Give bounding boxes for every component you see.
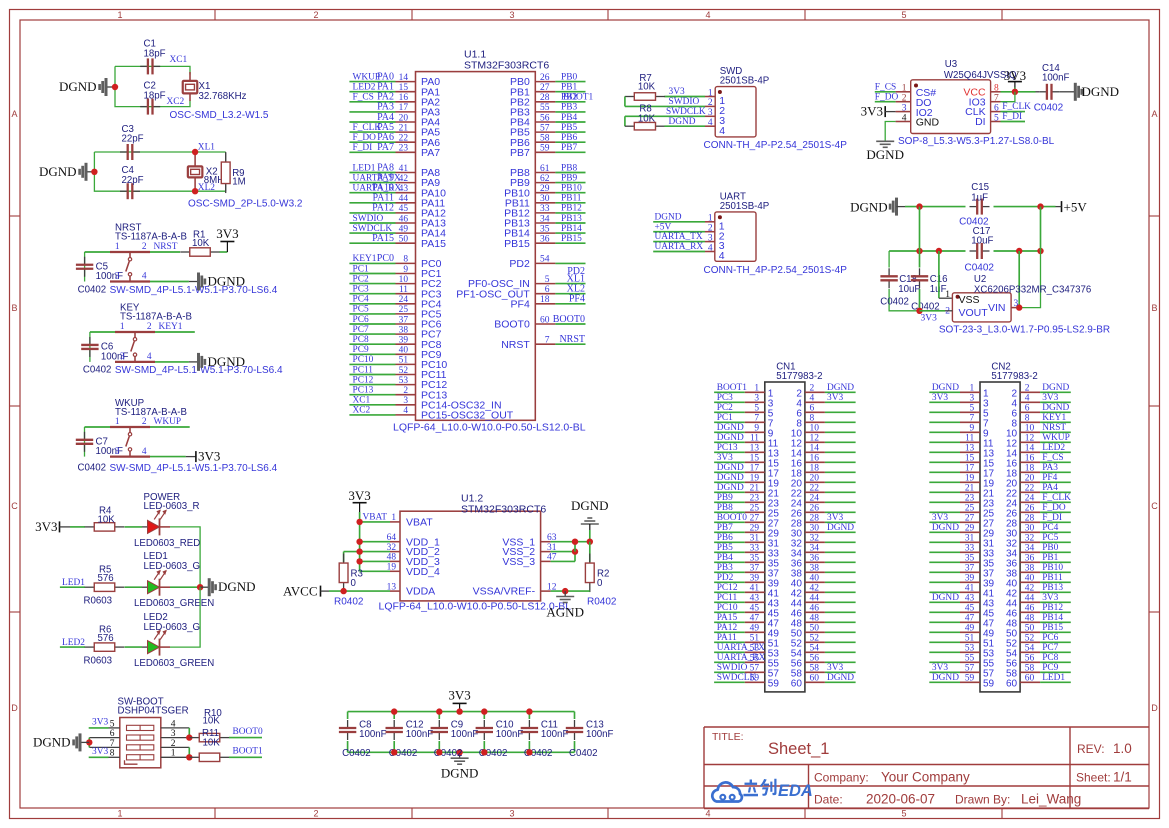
svg-text:28: 28 xyxy=(540,93,550,103)
svg-text:C0402: C0402 xyxy=(78,285,107,296)
junction 3V3 VOUT node xyxy=(916,308,922,314)
capacitor C6 xyxy=(89,337,91,345)
svg-text:57: 57 xyxy=(540,123,550,133)
wire CN2 pin 40 xyxy=(1020,581,1040,583)
svg-text:49: 49 xyxy=(399,224,409,234)
junction XL1 xyxy=(192,149,198,155)
svg-text:7: 7 xyxy=(754,414,759,424)
svg-text:VIN: VIN xyxy=(988,302,1006,314)
svg-text:SOT-23-3_L3.0-W1.7-P0.95-LS2.9: SOT-23-3_L3.0-W1.7-P0.95-LS2.9-BR xyxy=(939,324,1110,335)
svg-text:3: 3 xyxy=(115,272,120,282)
wire CN2 pin 35 xyxy=(929,561,960,563)
svg-text:XC6206P332MR_C347376: XC6206P332MR_C347376 xyxy=(974,284,1091,295)
wire DGND decoupling bottom rail xyxy=(348,751,575,753)
svg-text:1/1: 1/1 xyxy=(1113,770,1132,785)
svg-text:PC1: PC1 xyxy=(353,264,369,274)
logo LCEDA cloud xyxy=(712,782,742,801)
svg-text:17: 17 xyxy=(965,464,975,474)
svg-text:24: 24 xyxy=(399,295,409,305)
svg-text:14: 14 xyxy=(1025,444,1035,454)
svg-text:SWDCLK: SWDCLK xyxy=(717,673,757,683)
svg-text:F_CLK: F_CLK xyxy=(1042,493,1071,503)
svg-text:20: 20 xyxy=(810,474,820,484)
wire CN1 pin 31 xyxy=(714,541,745,543)
svg-text:58: 58 xyxy=(810,664,820,674)
svg-text:34: 34 xyxy=(1025,544,1035,554)
wire U1.1 pin 36 (PB15) xyxy=(535,242,555,244)
wire U1.1 pin 49 (PA14) xyxy=(349,232,395,234)
svg-text:57: 57 xyxy=(965,664,975,674)
capacitor C3 xyxy=(120,151,128,153)
svg-text:39: 39 xyxy=(399,336,409,346)
wire CN2 pin 38 xyxy=(1020,571,1040,573)
svg-text:C0402: C0402 xyxy=(965,263,995,274)
junction bottom rail C11 xyxy=(526,749,532,755)
wire 3V3 vertical rail U1.2 xyxy=(359,512,361,571)
svg-text:+5V: +5V xyxy=(655,222,672,232)
wire CN2 pin 32 xyxy=(1020,541,1040,543)
svg-text:F_DO: F_DO xyxy=(1042,503,1066,513)
svg-text:PB5: PB5 xyxy=(561,123,577,133)
svg-text:Your Company: Your Company xyxy=(881,770,970,785)
svg-text:3V3: 3V3 xyxy=(1042,593,1058,603)
svg-text:60: 60 xyxy=(540,315,550,325)
wire U1.1 pin 38 (PC7) xyxy=(349,333,395,335)
capacitor C7 xyxy=(84,432,86,440)
junction 3V3 rail xyxy=(456,708,462,714)
svg-text:WKUP: WKUP xyxy=(154,417,182,427)
svg-text:44: 44 xyxy=(1025,594,1035,604)
svg-text:56: 56 xyxy=(540,113,550,123)
wire UART pin 4 UARTA_RX xyxy=(705,251,715,253)
svg-text:35: 35 xyxy=(965,554,975,564)
svg-text:DGND: DGND xyxy=(655,212,682,222)
wire R11 to BOOT1 xyxy=(229,756,262,758)
wire CN1 pin 52 xyxy=(805,641,825,643)
wire U3 pin3 xyxy=(896,111,911,113)
svg-text:BOOT1: BOOT1 xyxy=(233,746,264,756)
svg-text:1uF: 1uF xyxy=(971,192,988,203)
svg-text:VDD_4: VDD_4 xyxy=(406,566,440,578)
svg-text:16: 16 xyxy=(1025,454,1035,464)
wire U3 pin2 F_DO xyxy=(896,101,911,103)
svg-text:10K: 10K xyxy=(638,114,656,125)
svg-text:2: 2 xyxy=(147,322,152,332)
svg-text:23: 23 xyxy=(750,494,760,504)
wire CN1 pin 9 xyxy=(714,431,745,433)
svg-text:KEY1: KEY1 xyxy=(353,254,377,264)
svg-text:41: 41 xyxy=(399,164,409,174)
svg-text:46: 46 xyxy=(399,214,409,224)
wire KEY bottom to ground xyxy=(155,361,189,363)
svg-text:38: 38 xyxy=(399,325,409,335)
svg-text:46: 46 xyxy=(810,604,820,614)
svg-text:PB15: PB15 xyxy=(504,238,530,250)
svg-text:50: 50 xyxy=(810,624,820,634)
svg-text:3V3: 3V3 xyxy=(92,747,108,757)
wire CN1 pin 17 xyxy=(714,471,745,473)
svg-text:D: D xyxy=(1151,703,1158,713)
svg-text:DGND: DGND xyxy=(717,483,744,493)
ground DGND flag NRST xyxy=(189,281,198,283)
svg-text:29: 29 xyxy=(750,524,760,534)
svg-text:60: 60 xyxy=(810,674,820,684)
wire U1.1 pin 7 (NRST) xyxy=(535,343,555,345)
svg-text:52: 52 xyxy=(399,366,409,376)
svg-text:4: 4 xyxy=(719,125,725,137)
svg-text:100nF: 100nF xyxy=(451,729,479,740)
svg-text:2: 2 xyxy=(708,98,713,108)
transistor U2 XC6206P332MR body xyxy=(952,293,1011,322)
svg-text:PC11: PC11 xyxy=(717,593,738,603)
svg-text:5: 5 xyxy=(545,275,550,285)
svg-text:3V3: 3V3 xyxy=(198,449,220,464)
svg-text:PD2: PD2 xyxy=(567,266,585,277)
wire XL1 net top xyxy=(94,151,225,153)
switch NRST TS-1187A-B-A-B xyxy=(110,251,150,253)
wire CN2 pin 2 xyxy=(1020,391,1040,393)
svg-text:PA15: PA15 xyxy=(421,238,446,250)
svg-text:1M: 1M xyxy=(232,176,245,187)
svg-text:PC7: PC7 xyxy=(353,325,369,335)
wire CN2 pin 53 xyxy=(929,651,960,653)
svg-text:41: 41 xyxy=(750,584,760,594)
svg-text:3V3: 3V3 xyxy=(92,718,108,728)
svg-text:PC4: PC4 xyxy=(353,295,369,305)
svg-text:15: 15 xyxy=(965,454,975,464)
svg-text:U3: U3 xyxy=(945,59,957,70)
wire CN1 pin 10 xyxy=(805,431,825,433)
wire SWD pin 4 xyxy=(705,125,715,127)
wire 1019 down to VIN xyxy=(1018,251,1020,308)
wire U1.1 pin 55 (PB3) xyxy=(535,111,555,113)
svg-text:PA3: PA3 xyxy=(1042,463,1058,473)
svg-text:SWDIO: SWDIO xyxy=(353,214,384,224)
svg-text:3V3: 3V3 xyxy=(35,519,57,534)
svg-text:F_DI: F_DI xyxy=(353,143,373,153)
wire U1.1 pin 5 (PF0-OSC_IN) xyxy=(535,283,555,285)
capacitor C9 xyxy=(438,712,440,719)
wire CN1 pin 60 xyxy=(805,681,825,683)
svg-text:OSC-SMD_2P-L5.0-W3.2: OSC-SMD_2P-L5.0-W3.2 xyxy=(188,199,303,210)
svg-text:R0402: R0402 xyxy=(334,596,364,607)
svg-text:4: 4 xyxy=(705,809,710,819)
svg-text:PB11: PB11 xyxy=(561,194,582,204)
svg-text:2: 2 xyxy=(313,10,318,20)
svg-text:PB12: PB12 xyxy=(1042,603,1063,613)
svg-text:4: 4 xyxy=(708,118,713,128)
wire CN2 pin 7 xyxy=(929,421,960,423)
junction second rail C16 xyxy=(916,248,922,254)
wire CN1 pin 39 xyxy=(714,581,745,583)
svg-text:14: 14 xyxy=(399,73,409,83)
svg-text:100nF: 100nF xyxy=(496,729,524,740)
svg-text:DGND: DGND xyxy=(932,593,959,603)
wire reg top rail right xyxy=(994,206,1056,208)
svg-text:1: 1 xyxy=(120,322,125,332)
wire DGND to VSS_1 xyxy=(589,530,591,542)
svg-text:PC3: PC3 xyxy=(717,393,733,403)
wire CN2 pin 47 xyxy=(929,621,960,623)
svg-text:60: 60 xyxy=(791,679,803,690)
svg-text:BOOT1: BOOT1 xyxy=(563,93,594,103)
wire SW-BOOT pin8 xyxy=(89,756,109,758)
svg-text:55: 55 xyxy=(540,103,550,113)
svg-text:A: A xyxy=(1151,109,1157,119)
svg-text:11: 11 xyxy=(750,434,759,444)
wire AVCC row xyxy=(329,590,390,592)
wire CN2 pin 3 xyxy=(929,401,960,403)
svg-text:50: 50 xyxy=(1025,624,1035,634)
svg-text:3V3: 3V3 xyxy=(717,453,733,463)
svg-text:PB7: PB7 xyxy=(510,147,530,159)
svg-text:3V3: 3V3 xyxy=(932,393,948,403)
svg-text:30: 30 xyxy=(540,194,550,204)
svg-text:43: 43 xyxy=(965,594,975,604)
svg-text:18pF: 18pF xyxy=(144,90,166,101)
svg-text:GND: GND xyxy=(916,117,940,129)
wire CN2 pin 45 xyxy=(929,611,960,613)
svg-text:5: 5 xyxy=(901,10,906,20)
svg-text:PD2: PD2 xyxy=(509,258,530,270)
wire CN2 pin 25 xyxy=(929,511,960,513)
wire WKUP top xyxy=(85,426,111,428)
wire CN1 pin 50 xyxy=(805,631,825,633)
wire U1.1 pin 57 (PB5) xyxy=(535,131,555,133)
capacitor C11 xyxy=(528,712,530,719)
svg-text:PC12: PC12 xyxy=(353,375,374,385)
svg-text:TS-1187A-B-A-B: TS-1187A-B-A-B xyxy=(120,311,192,322)
wire CN1 pin 21 xyxy=(714,491,745,493)
svg-text:PB14: PB14 xyxy=(1042,613,1063,623)
svg-text:DGND: DGND xyxy=(866,147,904,162)
wire reg second rail left xyxy=(889,250,965,252)
svg-text:PF4: PF4 xyxy=(569,294,585,305)
svg-text:LED2: LED2 xyxy=(353,83,376,93)
wire SW-BOOT pin6 xyxy=(89,737,120,739)
svg-text:Lei_Wang: Lei_Wang xyxy=(1021,792,1081,807)
wire CN1 pin 54 xyxy=(805,651,825,653)
wire CN2 pin 58 xyxy=(1020,671,1040,673)
svg-text:PA11: PA11 xyxy=(717,633,737,643)
svg-text:4: 4 xyxy=(705,10,710,20)
svg-text:3: 3 xyxy=(754,394,759,404)
wire CN1 pin 6 xyxy=(805,411,825,413)
wire U3 pin8 VCC to 3V3 xyxy=(991,91,1001,93)
svg-text:3: 3 xyxy=(708,233,713,243)
wire CN2 pin 14 xyxy=(1020,451,1040,453)
svg-text:PB7: PB7 xyxy=(561,143,577,153)
wire CN2 pin 4 xyxy=(1020,401,1040,403)
svg-text:PB10: PB10 xyxy=(561,184,582,194)
svg-text:WKUP: WKUP xyxy=(1042,433,1070,443)
svg-text:28: 28 xyxy=(1025,514,1035,524)
svg-text:30: 30 xyxy=(1025,524,1035,534)
svg-text:2020-06-07: 2020-06-07 xyxy=(866,792,935,807)
svg-text:41: 41 xyxy=(965,584,975,594)
wire U1.1 pin 35 (PB14) xyxy=(535,232,555,234)
svg-text:PC12: PC12 xyxy=(717,583,738,593)
svg-text:1: 1 xyxy=(970,384,975,394)
wire POWER led to gnd rail xyxy=(170,527,200,587)
svg-text:4: 4 xyxy=(147,352,152,362)
wire U1.1 pin 23 (PA7) xyxy=(349,151,395,153)
svg-text:KEY1: KEY1 xyxy=(159,322,183,332)
svg-text:3V3: 3V3 xyxy=(827,393,843,403)
wire CN2 pin 12 xyxy=(1020,441,1040,443)
svg-text:VSS_3: VSS_3 xyxy=(502,556,535,568)
svg-text:40: 40 xyxy=(1025,574,1035,584)
svg-text:PB0: PB0 xyxy=(561,72,577,82)
svg-text:AGND: AGND xyxy=(546,605,584,620)
svg-text:59: 59 xyxy=(983,679,995,690)
wire CN2 pin 41 xyxy=(929,591,960,593)
svg-text:SOP-8_L5.3-W5.3-P1.27-LS8.0-BL: SOP-8_L5.3-W5.3-P1.27-LS8.0-BL xyxy=(898,136,1055,147)
wire U1.1 pin 33 (PB12) xyxy=(535,212,555,214)
junction VSSA AGND xyxy=(562,588,568,594)
svg-text:PC5: PC5 xyxy=(353,305,369,315)
svg-text:REV:: REV: xyxy=(1077,742,1105,756)
svg-text:F_DI: F_DI xyxy=(1002,112,1022,122)
svg-text:SW-SMD_4P-L5.1-W5.1-P3.70-LS6.: SW-SMD_4P-L5.1-W5.1-P3.70-LS6.4 xyxy=(110,463,278,474)
svg-text:D: D xyxy=(11,703,18,713)
svg-text:3: 3 xyxy=(120,352,125,362)
svg-text:18: 18 xyxy=(540,295,550,305)
svg-text:DI: DI xyxy=(975,116,986,128)
wire CN2 pin 34 xyxy=(1020,551,1040,553)
svg-text:UARTA_RX: UARTA_RX xyxy=(717,653,766,663)
svg-text:C: C xyxy=(11,501,18,511)
svg-text:3: 3 xyxy=(970,394,975,404)
svg-text:37: 37 xyxy=(750,564,760,574)
wire U1.1 pin 14 (PA0) xyxy=(349,81,395,83)
wire U1.1 pin 40 (PC9) xyxy=(349,353,395,355)
svg-text:3: 3 xyxy=(708,108,713,118)
resistor R9 xyxy=(225,153,227,163)
junction VDD_2 xyxy=(356,548,362,554)
wire U1.1 pin 18 (PF4) xyxy=(535,303,555,305)
svg-text:PC10: PC10 xyxy=(717,603,738,613)
svg-text:LED-0603_G: LED-0603_G xyxy=(144,561,201,572)
svg-text:3V3: 3V3 xyxy=(1042,393,1058,403)
svg-text:47: 47 xyxy=(965,614,975,624)
svg-text:PB0: PB0 xyxy=(1042,543,1058,553)
wire CN1 pin 33 xyxy=(714,551,745,553)
svg-text:XC2: XC2 xyxy=(167,97,185,107)
svg-text:PB11: PB11 xyxy=(1042,573,1063,583)
junction OSC1 ground node xyxy=(112,84,118,90)
junction VSS_1 DGND R2 xyxy=(587,539,593,545)
wire U1.1 pin 20 (PA4) xyxy=(349,121,395,123)
wire CN1 pin 13 xyxy=(714,451,745,453)
capacitor C1 xyxy=(140,65,148,67)
svg-text:59: 59 xyxy=(768,679,780,690)
svg-text:3V3: 3V3 xyxy=(861,104,883,119)
wire CN1 pin 51 xyxy=(714,641,745,643)
capacitor C8 xyxy=(347,712,349,719)
svg-text:PC13: PC13 xyxy=(353,386,374,396)
wire CN1 pin 30 xyxy=(805,531,825,533)
wire U1.1 pin 26 (PB0) xyxy=(535,81,555,83)
resistor R8 xyxy=(625,125,635,127)
svg-text:3: 3 xyxy=(403,396,408,406)
wire U1.1 pin 16 (PA2) xyxy=(349,101,395,103)
wire U1.1 pin 34 (PB13) xyxy=(535,222,555,224)
svg-text:4: 4 xyxy=(902,113,907,123)
svg-text:56: 56 xyxy=(810,654,820,664)
wire U1.1 pin 50 (PA15) xyxy=(349,242,395,244)
svg-text:DGND: DGND xyxy=(717,463,744,473)
svg-text:DSHP04TSGER: DSHP04TSGER xyxy=(118,706,189,717)
wire VSS_2 to VSS_1 vertical xyxy=(574,542,576,552)
svg-text:B: B xyxy=(1151,303,1157,313)
svg-text:DGND: DGND xyxy=(827,383,854,393)
svg-text:C0402: C0402 xyxy=(78,462,107,473)
wire CN2 pin 30 xyxy=(1020,531,1040,533)
svg-text:44: 44 xyxy=(399,194,409,204)
wire XL2 net bottom xyxy=(94,152,225,191)
wire U1.1 pin 41 (PA8) xyxy=(349,172,395,174)
wire CN2 pin 55 xyxy=(929,661,960,663)
wire U1.1 pin 6 (PF1-OSC_OUT) xyxy=(535,293,555,295)
svg-text:LED1: LED1 xyxy=(353,163,376,173)
power flag +5V xyxy=(1061,201,1063,212)
svg-text:37: 37 xyxy=(965,564,975,574)
wire CN2 pin 28 xyxy=(1020,521,1040,523)
svg-text:SW-SMD_4P-L5.1-W5.1-P3.70-LS6.: SW-SMD_4P-L5.1-W5.1-P3.70-LS6.4 xyxy=(110,285,278,296)
svg-text:33: 33 xyxy=(750,544,760,554)
wire VSS_3 to VSS_2 vertical xyxy=(574,552,576,562)
wire CN1 pin 29 xyxy=(714,531,745,533)
wire CN2 pin 18 xyxy=(1020,471,1040,473)
svg-text:SWDCLK: SWDCLK xyxy=(666,107,706,117)
svg-text:STM32F303RCT6: STM32F303RCT6 xyxy=(464,60,549,72)
svg-text:22: 22 xyxy=(1025,484,1035,494)
svg-text:2501SB-4P: 2501SB-4P xyxy=(720,76,770,87)
svg-text:PB13: PB13 xyxy=(561,214,582,224)
svg-text:51: 51 xyxy=(399,356,409,366)
wire CN1 pin 22 xyxy=(805,491,825,493)
resistor R1 xyxy=(180,251,190,253)
svg-text:1: 1 xyxy=(117,10,122,20)
svg-text:19: 19 xyxy=(387,563,397,573)
op-amp U3 W25Q64JVSSIQ body xyxy=(911,80,991,134)
wire reg second rail right xyxy=(994,250,1041,252)
svg-text:26: 26 xyxy=(540,73,550,83)
svg-text:WKUP: WKUP xyxy=(353,72,381,82)
svg-text:13: 13 xyxy=(965,444,975,454)
junction U3 VCC xyxy=(1012,89,1018,95)
svg-text:XL2: XL2 xyxy=(198,183,215,193)
capacitor C10 xyxy=(483,712,485,719)
svg-text:33: 33 xyxy=(965,544,975,554)
svg-text:Sheet_1: Sheet_1 xyxy=(768,740,829,758)
svg-text:0: 0 xyxy=(351,578,357,589)
svg-text:22: 22 xyxy=(810,484,820,494)
wire R6 to LED2 led xyxy=(125,646,143,648)
svg-text:F_CS: F_CS xyxy=(353,93,374,103)
wire U1.1 pin 52 (PC11) xyxy=(349,374,395,376)
svg-text:DGND: DGND xyxy=(571,498,609,513)
junction second rail 1019 xyxy=(1016,248,1022,254)
junction bottom rail C9 xyxy=(436,749,442,755)
svg-text:10K: 10K xyxy=(638,82,656,93)
junction BOOT1 node xyxy=(186,754,192,760)
svg-text:F_DI: F_DI xyxy=(1042,513,1062,523)
wire CN2 pin 19 xyxy=(929,481,960,483)
svg-text:Date:: Date: xyxy=(814,793,843,807)
svg-text:36: 36 xyxy=(540,235,550,245)
